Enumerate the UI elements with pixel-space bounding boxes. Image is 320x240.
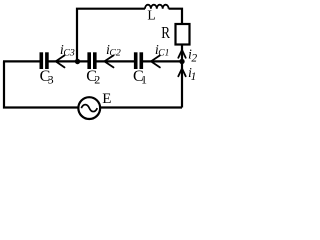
svg-text:2: 2 <box>191 53 197 65</box>
svg-text:3: 3 <box>48 72 54 86</box>
svg-text:1: 1 <box>141 72 147 86</box>
svg-text:C1: C1 <box>158 49 169 59</box>
svg-text:L: L <box>147 8 155 23</box>
svg-text:2: 2 <box>94 72 100 86</box>
svg-text:C3: C3 <box>63 47 75 58</box>
svg-text:E: E <box>102 91 111 107</box>
svg-text:R: R <box>161 23 170 42</box>
svg-text:1: 1 <box>191 71 197 83</box>
svg-text:C2: C2 <box>109 47 121 58</box>
